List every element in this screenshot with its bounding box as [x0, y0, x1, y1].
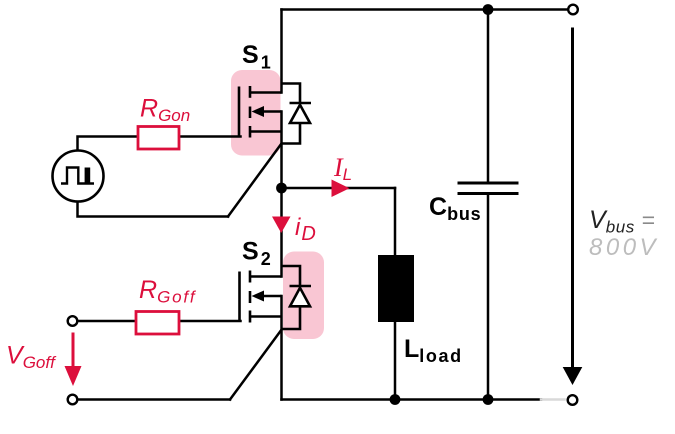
- transistor S2: [240, 271, 282, 323]
- diode D1 (S1 body diode): [282, 84, 312, 144]
- highlight S2 body diode: [283, 252, 324, 340]
- Vbus arrowhead: [563, 367, 583, 385]
- S1 channel segment source: [249, 126, 252, 138]
- wire top rail: [282, 8, 568, 11]
- wire S2 source to bottom rail: [280, 296, 283, 400]
- wire bottom rail: [282, 398, 542, 401]
- wire S1 drain to top rail: [280, 10, 283, 93]
- wire Vbus arrow shaft: [571, 29, 574, 369]
- wire S1 source to midpoint node: [280, 112, 283, 189]
- S1 gate bar: [238, 87, 241, 137]
- wire VGoff terminal to RGoff: [78, 320, 136, 323]
- junction node Cbus top: [483, 4, 494, 15]
- wire RGoff to S2 gate: [179, 320, 241, 323]
- S2 channel segment source: [249, 311, 252, 323]
- junction node Cbus bottom: [483, 394, 494, 405]
- terminal VGoff plus: [68, 316, 78, 326]
- wire pulse source to RGon: [78, 137, 139, 150]
- arrow iD: [272, 217, 291, 234]
- S2 body stub: [262, 295, 282, 298]
- wire VGoff return: [78, 398, 230, 401]
- wire RGon to S1 gate: [179, 135, 241, 138]
- wire Cbus bottom: [487, 195, 490, 400]
- terminal VGoff minus: [68, 395, 78, 405]
- wire diagonal to S1 source: [228, 144, 282, 217]
- arrow VGoff: [72, 333, 75, 369]
- S1 source stub: [251, 130, 282, 133]
- S1 body arrow: [252, 106, 265, 117]
- S2 gate bar: [238, 272, 241, 322]
- D2 triangle: [290, 288, 310, 307]
- wire Cbus top: [487, 10, 490, 182]
- wire Lload to bottom rail: [394, 322, 397, 400]
- junction node Lload bottom: [390, 394, 401, 405]
- wire IL branch vertical to Lload: [394, 188, 397, 255]
- highlight S1 channel: [231, 70, 281, 156]
- S2 body arrow: [252, 291, 265, 302]
- S2 drain stub: [251, 275, 282, 278]
- resistor RGon: [138, 127, 179, 150]
- terminal top right: [568, 5, 578, 15]
- S1 channel segment drain: [249, 86, 252, 98]
- S1 channel segment body: [249, 107, 252, 119]
- wire pulse source return: [78, 203, 229, 217]
- diode D2 (S2 body diode): [282, 266, 312, 329]
- D1 cathode bar: [290, 102, 312, 105]
- S1 body stub: [262, 110, 282, 113]
- wire midpoint to S2 drain: [280, 188, 283, 277]
- junction node midpoint: [276, 183, 287, 194]
- terminal bottom right: [568, 395, 578, 405]
- transistor S1: [239, 86, 282, 138]
- pulse source V1: [53, 151, 104, 202]
- wire IL branch horizontal: [282, 187, 396, 190]
- S2 channel segment drain: [249, 271, 252, 283]
- D2 cathode bar: [290, 285, 312, 288]
- inductor Lload: [378, 255, 414, 322]
- S2 channel segment body: [249, 291, 252, 303]
- S1 drain stub: [251, 91, 282, 94]
- D1 triangle: [290, 105, 310, 123]
- arrow IL: [332, 180, 350, 198]
- S2 source stub: [251, 315, 282, 318]
- resistor RGoff: [136, 312, 179, 335]
- wire bottom rail faded segment: [541, 398, 565, 401]
- wire diagonal to S2 source: [230, 329, 282, 400]
- capacitor Cbus: [458, 183, 519, 194]
- svg-text:800V: 800V: [589, 234, 659, 261]
